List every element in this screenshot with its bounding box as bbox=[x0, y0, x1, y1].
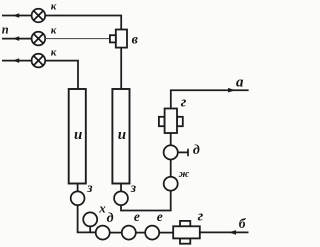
svg-text:г: г bbox=[198, 209, 204, 225]
label з (Z2) bbox=[130, 180, 136, 195]
arrow on line 2 bbox=[13, 36, 19, 41]
wire Z1 down to bottom row bbox=[78, 205, 96, 232]
wire E2 to heat exchanger G2 bbox=[159, 232, 173, 234]
wire from K1 to unit B top bbox=[45, 16, 121, 30]
label д (D1) bbox=[107, 211, 114, 226]
condenser K2 bbox=[32, 32, 46, 46]
condenser K1 bbox=[32, 9, 46, 23]
arrow on line 3 bbox=[13, 58, 19, 63]
label д (D2) bbox=[193, 143, 200, 158]
wire column I1 to pot Z1 bbox=[77, 184, 79, 192]
pot Z1 bbox=[71, 191, 85, 205]
svg-text:з: з bbox=[130, 180, 136, 195]
label и (column I2) bbox=[118, 127, 126, 143]
label а (outlet a) bbox=[236, 75, 244, 91]
label в (unit B) bbox=[132, 33, 139, 48]
heat exchanger G2 (bottom, with top and bottom tabs) bbox=[173, 221, 200, 244]
svg-text:ж: ж bbox=[179, 168, 190, 180]
wire from K2 to unit B side tab bbox=[45, 38, 110, 40]
wire E1 to E2 bbox=[136, 232, 145, 234]
wire G1 to outlet a bbox=[171, 90, 249, 108]
wire column I2 to pot Z2 bbox=[120, 184, 122, 192]
svg-text:а: а bbox=[236, 75, 244, 91]
wire inlet line 3 bbox=[2, 60, 32, 62]
label х (vessel X) bbox=[98, 200, 106, 215]
svg-text:д: д bbox=[193, 143, 200, 158]
svg-text:з: з bbox=[86, 180, 92, 195]
wire D2 to heat exchanger G1 bbox=[170, 133, 172, 145]
condenser K3 bbox=[32, 54, 46, 68]
svg-text:в: в bbox=[132, 33, 139, 48]
unit B (heater with left tab) bbox=[110, 30, 127, 48]
svg-text:д: д bbox=[107, 211, 114, 226]
wire unit B to column I2 top bbox=[120, 48, 122, 89]
label б (outlet b) bbox=[239, 216, 247, 231]
wire inlet line 1 bbox=[2, 15, 32, 17]
wire Zh to D2 bbox=[170, 160, 172, 177]
label к (K2) bbox=[51, 25, 57, 37]
pump D1 (bottom row) bbox=[96, 226, 110, 240]
label и (column I1) bbox=[74, 127, 82, 143]
wire D1 to E1 bbox=[110, 232, 122, 234]
wire G2 to outlet b bbox=[200, 231, 249, 233]
column I1 bbox=[69, 89, 86, 184]
label г (G1) bbox=[181, 95, 187, 111]
pump E1 bbox=[122, 226, 136, 240]
stub wire vessel X to bottom row bbox=[89, 226, 91, 232]
heat exchanger G1 (right, with side tabs) bbox=[159, 109, 183, 134]
pump D2 (with blind stub) bbox=[164, 145, 178, 159]
svg-text:к: к bbox=[51, 0, 57, 12]
svg-text:е: е bbox=[134, 209, 140, 224]
pump Zh bbox=[164, 177, 178, 191]
svg-text:г: г bbox=[181, 95, 187, 111]
stub with end bar on D2 bbox=[178, 149, 188, 157]
svg-text:к: к bbox=[51, 47, 57, 59]
wire Z2 to pump Zh bbox=[121, 191, 171, 211]
label г (G2) bbox=[198, 209, 204, 225]
label к (K3) bbox=[51, 47, 57, 59]
pump E2 bbox=[145, 226, 159, 240]
pot Z2 bbox=[114, 191, 128, 205]
column I2 bbox=[112, 89, 129, 184]
svg-text:и: и bbox=[118, 127, 126, 143]
svg-text:х: х bbox=[98, 200, 106, 215]
svg-text:п: п bbox=[2, 23, 9, 37]
label з (Z1) bbox=[86, 180, 92, 195]
svg-text:е: е bbox=[157, 209, 163, 224]
arrow on outlet b bbox=[229, 230, 236, 235]
wire from K3 to column I1 top bbox=[45, 61, 78, 89]
label к (K1) bbox=[51, 0, 57, 12]
arrow on outlet a bbox=[228, 88, 235, 93]
label ж (pump Zh) bbox=[179, 168, 190, 180]
label е (E1) bbox=[134, 209, 140, 224]
arrow on line 1 bbox=[13, 13, 19, 18]
svg-text:к: к bbox=[51, 25, 57, 37]
vessel X bbox=[83, 212, 97, 226]
svg-text:и: и bbox=[74, 127, 82, 143]
label п bbox=[2, 23, 9, 37]
label е (E2) bbox=[157, 209, 163, 224]
wire inlet line 2 bbox=[2, 38, 32, 40]
